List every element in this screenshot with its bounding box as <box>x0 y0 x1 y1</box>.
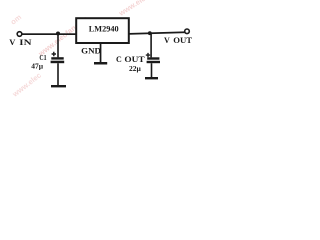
capacitor COUT top plate <box>147 57 159 59</box>
capacitor COUT plus sign <box>146 53 150 57</box>
capacitor COUT bottom plate <box>147 61 160 63</box>
ground bar under C1 <box>51 85 66 87</box>
terminal VIN open circle <box>17 32 22 37</box>
watermark www.elecfans.com diagonal A <box>36 14 90 59</box>
capacitor C1 top plate <box>51 57 63 59</box>
svg-text:V: V <box>9 37 16 47</box>
svg-text:IN: IN <box>19 37 32 47</box>
node junction dot at COUT tap <box>148 31 152 35</box>
svg-text:OUT: OUT <box>124 55 145 64</box>
svg-text:47µ: 47µ <box>31 62 44 71</box>
svg-text:22µ: 22µ <box>129 64 142 73</box>
wire COUT top lead <box>150 33 152 57</box>
capacitor C1 bottom plate <box>51 61 65 64</box>
node junction dot at C1 tap <box>56 32 60 36</box>
svg-text:LM2940: LM2940 <box>89 25 119 34</box>
wire COUT bottom lead <box>151 63 153 77</box>
capacitor C1 plus sign <box>52 52 56 56</box>
wire GND pin lead <box>100 44 102 62</box>
svg-text:C: C <box>116 55 122 64</box>
svg-text:OUT: OUT <box>173 36 193 45</box>
wire input rail <box>22 33 77 35</box>
wire C1 top lead <box>57 34 59 57</box>
op-amp regulator U1 box LM2940 <box>76 18 129 43</box>
svg-text:GND: GND <box>81 45 101 55</box>
ground bar under U1 <box>94 62 107 65</box>
ground bar under COUT <box>145 77 158 79</box>
watermark diagonal B top-left <box>9 12 24 26</box>
watermark diagonal C top-middle <box>116 0 178 18</box>
wire output rail <box>129 31 185 34</box>
watermark diagonal D bottom-left <box>10 71 43 100</box>
terminal VOUT open circle <box>185 29 190 34</box>
svg-text:V: V <box>164 36 170 45</box>
wire C1 bottom lead <box>57 63 59 85</box>
